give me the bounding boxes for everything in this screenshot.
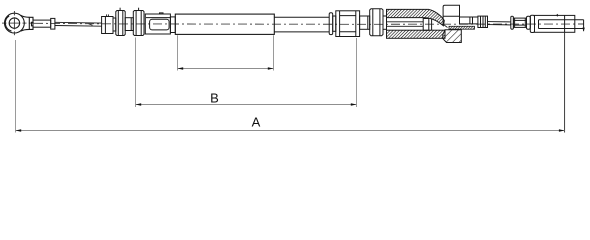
adjuster body xyxy=(336,11,360,37)
outer sleeve xyxy=(175,14,274,34)
svg-text:A: A xyxy=(252,115,261,130)
eyelet lug xyxy=(21,15,33,31)
hex nut N3 xyxy=(370,9,383,36)
sleeve dimension extension lines xyxy=(178,35,274,70)
svg-text:B: B xyxy=(210,91,219,106)
collar C2 xyxy=(170,17,175,33)
washer flange xyxy=(329,13,333,35)
bracket body lines xyxy=(460,17,478,24)
barrel end cylinder xyxy=(535,15,584,32)
rubber boot bottom band (hatched) xyxy=(387,30,446,38)
conduit xyxy=(274,17,329,32)
inner cable left xyxy=(55,22,102,26)
right fitting ridge 2 xyxy=(527,16,531,29)
bracket bottom plate (hatched) xyxy=(443,30,462,43)
right fitting body xyxy=(513,18,526,27)
collar C3 xyxy=(333,16,336,31)
bracket cap xyxy=(443,5,459,27)
adjuster cylinder xyxy=(102,14,113,33)
dimension A line xyxy=(16,130,565,132)
crimp cylinder xyxy=(145,13,170,34)
hex nut N1 xyxy=(116,8,125,36)
collar C1 xyxy=(113,18,116,31)
rubber boot top band (hatched) xyxy=(387,9,445,25)
ribbed adjuster xyxy=(478,16,488,27)
hex nut N2 xyxy=(133,8,144,36)
sleeve dimension line xyxy=(178,68,274,70)
sleeve dimension arrows xyxy=(178,67,274,70)
end stub xyxy=(583,20,585,32)
dimension B line xyxy=(136,104,357,106)
ferrule F1 xyxy=(51,18,55,29)
stub dim arrow xyxy=(582,28,585,32)
eyelet centerline ticks xyxy=(13,11,15,35)
threaded step 1 xyxy=(125,18,133,31)
rod stem xyxy=(33,20,51,27)
right fitting ridge 1 xyxy=(511,16,514,29)
dimension B extension lines xyxy=(136,38,357,108)
step cylinder 3 xyxy=(383,16,387,29)
label A xyxy=(252,115,261,130)
dimension A arrows xyxy=(16,129,565,132)
barrel top tick xyxy=(556,14,558,17)
cable through boot xyxy=(387,22,424,27)
boot left edge xyxy=(386,9,388,38)
inner cable right xyxy=(488,22,511,25)
bracket thin hatched strip xyxy=(449,26,475,29)
right fitting flange xyxy=(530,15,534,32)
eyelet horizontal centerline xyxy=(2,22,34,24)
eyelet ring xyxy=(5,13,25,33)
cable stop inside boot xyxy=(423,19,431,31)
dimension B arrows xyxy=(136,103,357,106)
step cylinder 2 xyxy=(360,16,370,29)
label B xyxy=(210,91,219,106)
centerline axis xyxy=(34,23,584,24)
dimension A extension lines xyxy=(15,40,17,133)
